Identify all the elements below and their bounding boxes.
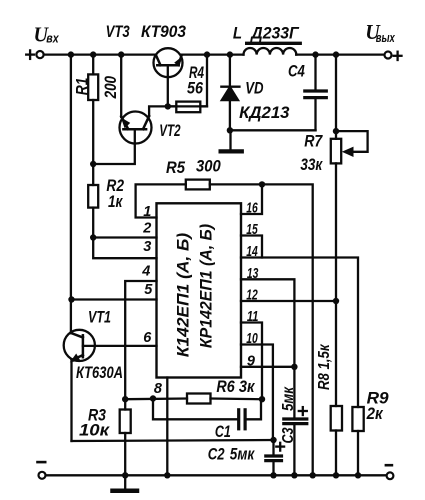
wire VT3 base xyxy=(167,65,169,106)
wire top rail mid xyxy=(182,53,244,55)
wire VT2 base xyxy=(93,129,135,164)
svg-text:R7: R7 xyxy=(304,132,323,151)
terminal bottom right minus xyxy=(387,472,394,479)
resistor R3 xyxy=(124,399,126,409)
wire pin11 down to R6 node xyxy=(261,345,263,400)
svg-text:VT3: VT3 xyxy=(106,22,131,41)
wire R1 column top xyxy=(92,55,94,75)
resistor R2 xyxy=(88,185,98,208)
wire pin4 xyxy=(125,281,156,399)
label plus input xyxy=(26,53,34,55)
wire R5 right xyxy=(210,184,313,475)
svg-text:3: 3 xyxy=(143,239,151,255)
svg-text:К142ЕП1 (А, Б): К142ЕП1 (А, Б) xyxy=(174,233,193,358)
svg-text:C4: C4 xyxy=(288,62,305,81)
svg-text:1к: 1к xyxy=(108,192,123,211)
svg-text:1: 1 xyxy=(143,204,151,220)
wire VT1 base to pin6 xyxy=(83,345,157,347)
wire VT1 emitter to C2 xyxy=(72,440,274,441)
wire pin9 xyxy=(241,366,294,368)
wire R1 bottom to R2 xyxy=(92,100,94,185)
svg-text:Д233Г: Д233Г xyxy=(249,23,300,42)
wire top rail right xyxy=(296,53,384,55)
wire pin14 to R9 xyxy=(241,258,358,408)
svg-text:10к: 10к xyxy=(79,420,111,439)
capacitor C2 xyxy=(272,440,274,456)
transistor VT1 xyxy=(64,330,95,361)
wire pin16 xyxy=(241,184,262,214)
svg-text:12: 12 xyxy=(246,288,257,304)
wire pin2 xyxy=(93,236,156,238)
potentiometer R7 xyxy=(335,55,337,139)
terminal input plus xyxy=(36,51,43,58)
inductor L xyxy=(244,48,297,55)
transistor VT3 xyxy=(154,48,183,77)
wire pin15 to pin14 xyxy=(241,236,262,258)
wire VT1 emitter xyxy=(70,360,72,441)
svg-text:C2: C2 xyxy=(208,445,225,464)
svg-text:11: 11 xyxy=(247,309,259,325)
svg-text:10: 10 xyxy=(246,331,257,347)
label minus bottom right xyxy=(386,464,392,467)
capacitor C4 xyxy=(314,55,316,91)
wire VT2 emitter riser xyxy=(120,55,122,117)
terminal output plus xyxy=(385,52,392,59)
wire VD to C4 xyxy=(230,129,316,131)
label plus C2 xyxy=(276,445,284,447)
diode VD xyxy=(221,87,239,100)
ground symbol bottom xyxy=(124,475,126,489)
svg-text:13: 13 xyxy=(247,266,259,282)
svg-text:3к: 3к xyxy=(239,377,256,396)
wire pin13 xyxy=(241,279,294,367)
svg-text:6: 6 xyxy=(143,330,152,346)
resistor R4 xyxy=(176,102,200,113)
svg-text:8: 8 xyxy=(154,381,163,397)
wire VT2 collector to R4 xyxy=(149,55,207,116)
svg-text:15: 15 xyxy=(246,222,258,238)
label minus bottom left xyxy=(38,461,46,464)
svg-text:L: L xyxy=(233,23,242,42)
svg-text:вх: вх xyxy=(46,30,59,45)
capacitor C3 xyxy=(293,367,295,419)
svg-text:R8 1,5к: R8 1,5к xyxy=(316,344,333,390)
resistor R5 xyxy=(186,180,210,190)
transistor VT2 xyxy=(120,112,152,144)
svg-text:300: 300 xyxy=(196,157,221,176)
svg-text:С3: С3 xyxy=(280,427,297,443)
svg-text:9: 9 xyxy=(247,353,255,369)
svg-text:C1: C1 xyxy=(215,422,231,441)
svg-text:5мк: 5мк xyxy=(230,445,256,464)
IC box U1 xyxy=(157,203,242,377)
label plus output xyxy=(394,55,402,57)
wire pin3 xyxy=(93,238,156,259)
wire left rail down xyxy=(70,55,72,334)
resistor R1 xyxy=(88,74,98,100)
svg-text:2к: 2к xyxy=(366,404,384,423)
wire bottom rail xyxy=(46,474,387,476)
svg-text:2: 2 xyxy=(142,221,151,237)
svg-text:5: 5 xyxy=(144,282,153,298)
svg-text:5мк: 5мк xyxy=(280,386,297,411)
ground under VD xyxy=(229,130,231,150)
svg-text:16: 16 xyxy=(246,201,258,217)
wire R6 node xyxy=(125,397,187,400)
resistor R8 xyxy=(331,406,342,431)
svg-text:56: 56 xyxy=(187,78,203,97)
svg-text:КД213: КД213 xyxy=(239,103,290,122)
wire R2 bottom xyxy=(92,208,94,238)
wire pin5 to rail xyxy=(72,298,157,300)
svg-text:200: 200 xyxy=(101,76,120,100)
svg-text:вых: вых xyxy=(376,30,396,45)
svg-text:VT1: VT1 xyxy=(88,308,111,327)
svg-text:R6: R6 xyxy=(216,377,235,396)
svg-text:R1: R1 xyxy=(73,78,92,96)
wire VD column xyxy=(229,55,231,87)
svg-text:VD: VD xyxy=(245,78,263,97)
svg-text:4: 4 xyxy=(141,264,150,280)
svg-text:33к: 33к xyxy=(300,155,323,174)
label underline D233G xyxy=(247,42,301,45)
resistor R9 xyxy=(352,407,363,431)
wire pin10 to C2 xyxy=(241,345,273,441)
svg-text:КР142ЕП1 (А, Б): КР142ЕП1 (А, Б) xyxy=(197,224,216,349)
svg-text:КТ903: КТ903 xyxy=(141,22,186,41)
svg-text:14: 14 xyxy=(246,244,257,260)
svg-text:R5: R5 xyxy=(166,158,185,177)
capacitor C1 xyxy=(153,399,239,420)
wire pin12 xyxy=(241,300,336,302)
pin numbers xyxy=(141,201,258,398)
wire pin8 to ground rail xyxy=(166,378,168,476)
wire top rail left xyxy=(44,53,155,55)
wire pin11 xyxy=(241,323,262,345)
label plus C3 xyxy=(299,410,307,412)
svg-text:VT2: VT2 xyxy=(159,121,181,140)
svg-text:КТ630А: КТ630А xyxy=(76,363,123,382)
resistor R6 xyxy=(187,394,211,404)
wire R5 loop pin1 xyxy=(136,184,186,217)
terminal bottom left minus xyxy=(39,472,46,479)
